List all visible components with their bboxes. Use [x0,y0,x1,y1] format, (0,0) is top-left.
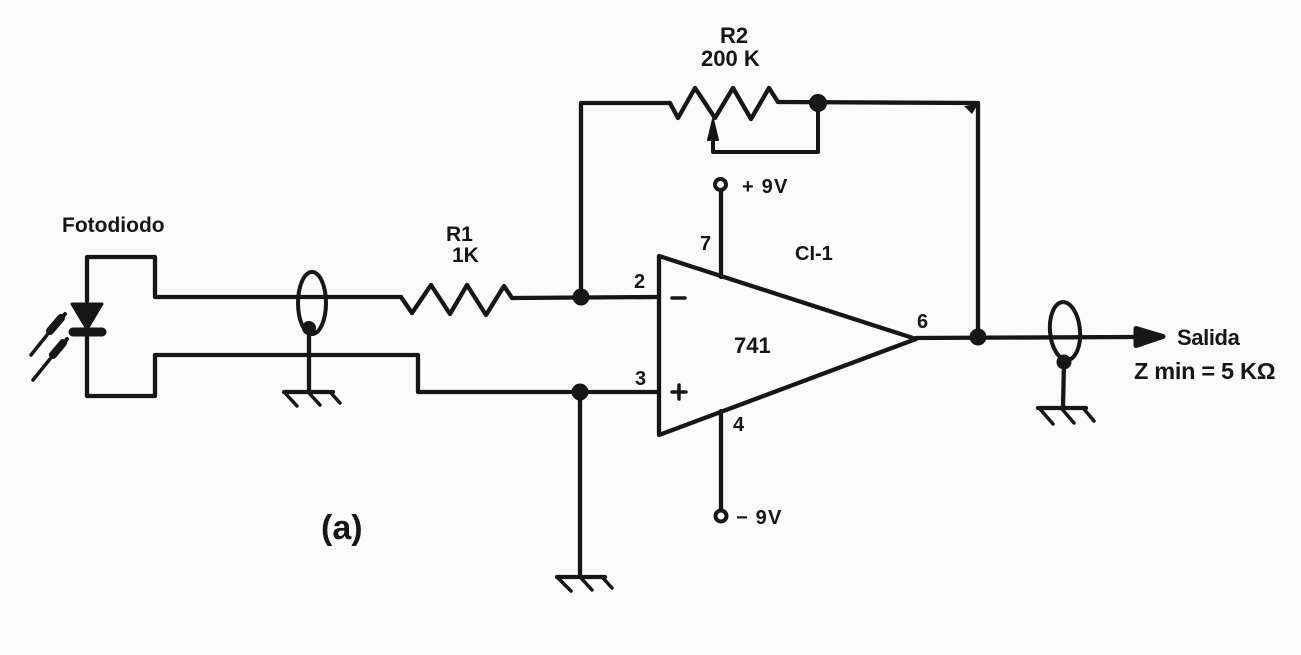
wire: +9V to pin 7 [719,190,723,277]
svg-text:− 9V: − 9V [736,507,783,529]
terminal -9V [716,511,727,522]
pin label 3 [635,368,646,390]
photodiode D1 cathode bar [73,328,102,337]
svg-text:3: 3 [635,368,646,390]
svg-text:2: 2 [634,271,645,293]
node: J1 shield dot [302,321,316,335]
svg-text:741: 741 [734,333,771,358]
op-amp U1 (741) triangle [659,256,916,435]
svg-text:Fotodiodo: Fotodiodo [62,214,165,237]
pin label 6 [917,311,928,333]
label - 9V [736,507,783,529]
label Salida [1177,325,1241,350]
wire: op-amp output [916,337,1134,338]
ground (input reference) [557,577,612,591]
svg-text:(a): (a) [321,509,363,547]
ground (output) [1038,408,1094,424]
node: output junction [970,329,987,346]
arrow: Salida output arrowhead [1136,329,1163,346]
op-amp plus sign [672,385,686,399]
svg-text:1K: 1K [452,244,479,267]
node: J2 shield dot [1057,355,1072,370]
wire: pin 4 to -9V [719,411,723,509]
resistor R2 (potentiometer element) [670,88,778,119]
connector J1 (oval bushing) [298,272,326,334]
node: pin 3 junction [572,384,589,401]
label Z min = 5 K ohm [1134,358,1275,384]
wire: pin 3 junction to ground [578,392,582,577]
op-amp minus sign [672,296,685,300]
wire: J1 shield to ground [307,328,311,392]
connector J2 (oval bushing) [1048,301,1083,361]
light arrow 2 [33,339,67,380]
label 200 K [701,46,760,71]
pin label 7 [700,233,711,255]
label 1K [452,244,479,267]
node: inverting input junction [573,289,590,306]
pin label 2 [634,271,645,293]
label R2 [720,23,748,48]
label (a) [321,509,363,547]
wire: feedback vertical (junction to R2 left) [579,103,583,297]
svg-text:CI-1: CI-1 [795,243,833,265]
wire: feedback right vertical to output [976,103,980,337]
arrow tick at feedback corner [964,104,978,114]
wire: R2 right lead to corner [778,102,978,103]
svg-text:+ 9V: + 9V [742,176,789,198]
pin label 4 [733,414,745,436]
svg-text:7: 7 [700,233,711,255]
resistor R1 [401,285,512,315]
label CI-1 [795,243,833,265]
wire: photodiode top lead to R1 (inverting net) [155,295,401,299]
svg-text:R2: R2 [720,23,748,48]
ground (J1) [284,392,340,406]
wire: J2 shield to ground [1063,362,1064,408]
potentiometer wiper arrow [708,103,818,152]
label Fotodiodo [62,214,165,237]
wire: R1 to op-amp pin 2 [512,297,659,298]
light arrow 1 [31,314,65,355]
svg-text:6: 6 [917,311,928,333]
svg-text:R1: R1 [446,223,473,246]
photodiode D1 diode symbol [72,304,102,329]
wire: R2 left lead [581,101,670,105]
photodiode D1 body (bracket outline) [87,257,155,396]
label R1 [446,223,473,246]
terminal +9V [715,179,726,190]
label 741 [734,333,771,358]
svg-text:4: 4 [733,414,745,436]
node: R2 right junction [809,94,827,112]
wire: photodiode bottom lead (non-inverting net) [155,355,659,392]
label + 9V [742,176,789,198]
svg-text:Salida: Salida [1177,325,1241,350]
svg-text:200 K: 200 K [701,46,760,71]
svg-text:Z min = 5 KΩ: Z min = 5 KΩ [1134,358,1275,384]
